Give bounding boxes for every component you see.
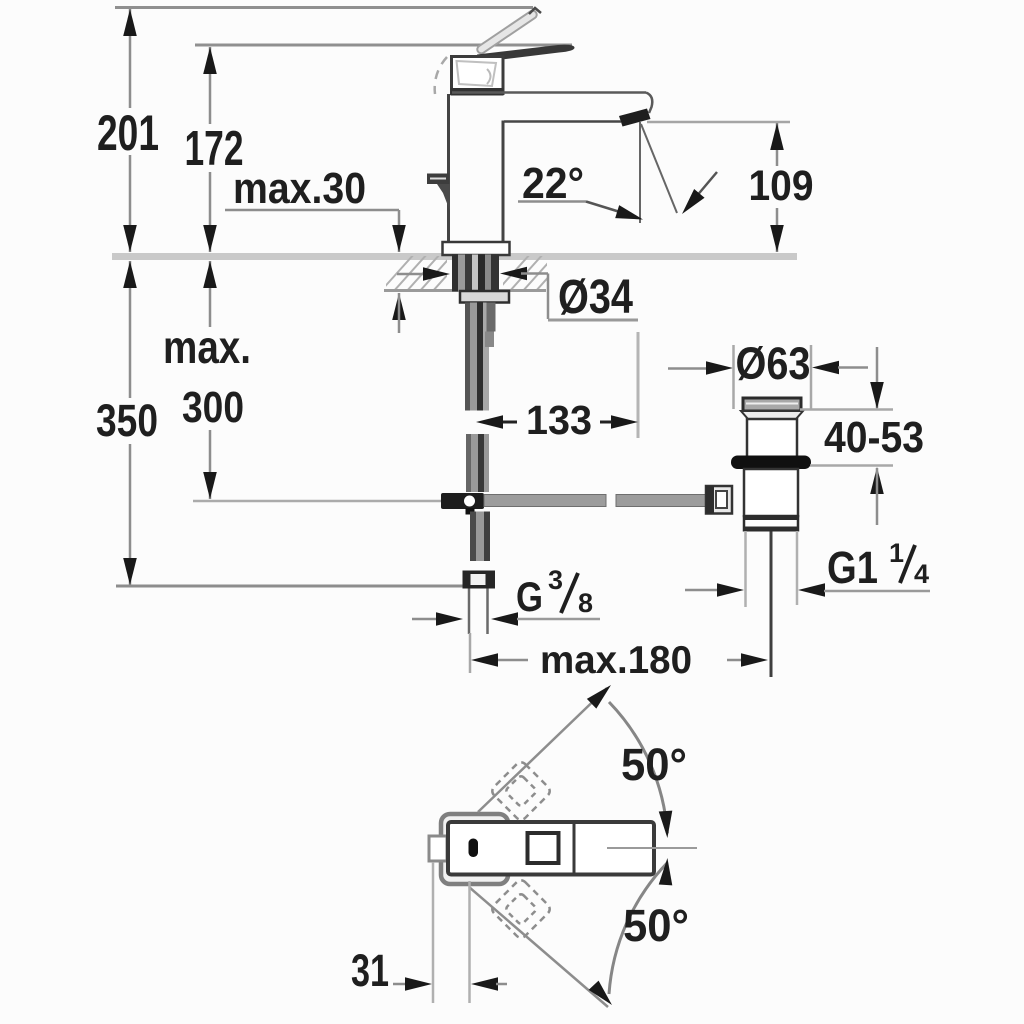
svg-text:300: 300 [182, 383, 244, 432]
svg-text:350: 350 [96, 395, 158, 446]
svg-text:max.30: max.30 [233, 164, 366, 213]
horizontal pop-up rod right part [616, 495, 708, 507]
dimension G3/8 [412, 618, 437, 621]
spout reach extension line [637, 332, 640, 438]
plan lever divider [573, 824, 576, 873]
horizontal pop-up rod left part [484, 495, 606, 507]
dimension 350 [129, 261, 132, 585]
drain flange taper [741, 411, 803, 419]
drain collar [743, 515, 799, 520]
spout top line [452, 91, 646, 94]
svg-text:4: 4 [914, 559, 929, 589]
svg-text:50°: 50° [621, 739, 687, 790]
dimension 133 [502, 421, 517, 424]
base plinth [443, 242, 510, 255]
housing chamfer inner face [457, 61, 497, 86]
housing base ring [451, 88, 504, 96]
drain tailpipe G1 1/4 [770, 532, 773, 678]
svg-text:8: 8 [578, 588, 593, 618]
svg-text:133: 133 [526, 397, 592, 443]
hose-end extension line (max.300) [193, 500, 442, 503]
50 degree radius line lower [469, 887, 608, 1007]
dashed rotated lever position upper [490, 760, 552, 822]
G3/8 nut [463, 571, 496, 589]
dimension diameter 63 [668, 367, 707, 370]
dimension max.180 [497, 659, 528, 662]
drain flange (pop-up waste top) [743, 398, 801, 411]
plan centerline [607, 847, 697, 849]
plan view body (top view) [441, 814, 508, 884]
connector tail lines [468, 589, 471, 635]
svg-text:40-53: 40-53 [824, 413, 924, 462]
svg-text:Ø63: Ø63 [736, 338, 811, 389]
dashed rotated lever position lower [490, 878, 552, 940]
50 degree arc upper [609, 702, 667, 833]
supply pipe upper segment [465, 303, 496, 411]
rod-to-drain fitting [706, 486, 732, 514]
dimension 201 [129, 9, 132, 252]
dimension max.30 [225, 209, 399, 212]
datum line top (max height, open handle) [115, 6, 533, 9]
deck hatch right [496, 253, 570, 292]
svg-text:max.: max. [163, 321, 251, 373]
faucet body right edge [502, 121, 505, 244]
faucet body left edge [447, 94, 450, 243]
pop-up rod knob (rear) [427, 174, 449, 185]
dimension 31 [393, 983, 406, 986]
spout outlet extension line [647, 121, 790, 124]
plan cartridge square [528, 833, 559, 863]
plan view lever/spout [448, 822, 654, 875]
dimension 172 [209, 47, 212, 252]
plan outlet dot [469, 839, 479, 858]
svg-text:1: 1 [889, 538, 904, 568]
svg-text:G1: G1 [827, 542, 878, 593]
svg-text:201: 201 [97, 105, 159, 161]
svg-text:50°: 50° [623, 900, 689, 951]
drain upper body [747, 419, 797, 457]
datum line closed handle height [195, 44, 572, 47]
ghost open lever [476, 9, 539, 55]
handle housing (cartridge cube) [452, 57, 504, 94]
svg-text:Ø34: Ø34 [558, 271, 633, 324]
50 degree arc lower [609, 863, 667, 994]
spout aerator outlet [619, 109, 651, 127]
deck hatch left [380, 253, 467, 292]
deck bottom line [384, 289, 546, 292]
dimension diameter 34 [397, 273, 426, 276]
pop-up rod pivot joint [441, 493, 484, 509]
drain lower body [744, 469, 798, 516]
deck top surface band [112, 253, 797, 260]
drain O-ring seal [731, 456, 811, 470]
dimension 22 degrees [639, 122, 641, 223]
plan view side tab [429, 836, 447, 861]
dimension 109 [776, 123, 779, 252]
mounting nut / washer [460, 291, 509, 303]
closed lever handle [477, 45, 575, 63]
supply pipe lower segment [466, 434, 489, 492]
50 degree radius line upper [478, 688, 607, 812]
G3/8 threaded connector [470, 512, 490, 562]
ghost lever tip hook [529, 8, 541, 14]
bottom datum line (350 end) [116, 585, 465, 588]
svg-text:109: 109 [749, 162, 814, 210]
dimension G1 1/4 [685, 589, 718, 592]
dimension max.300 [209, 261, 212, 499]
dimension 40-53 [800, 408, 893, 411]
svg-text:max.180: max.180 [540, 639, 692, 682]
svg-text:3: 3 [548, 565, 563, 595]
threaded shank in deck hole [452, 255, 499, 292]
svg-text:G: G [516, 573, 543, 620]
handle motion arc dashes [435, 57, 447, 94]
spout end curve [646, 93, 652, 114]
spout underside line [504, 120, 621, 123]
svg-text:31: 31 [351, 945, 389, 996]
housing inner curve [487, 69, 491, 84]
